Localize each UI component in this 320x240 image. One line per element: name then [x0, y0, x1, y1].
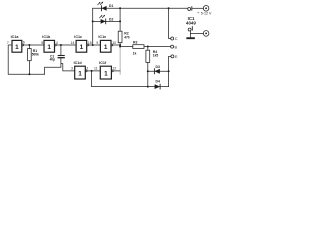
svg-text:1: 1: [47, 44, 51, 51]
gate IC1c: [74, 35, 88, 52]
wire LED right vertical down to R2: [119, 8, 121, 31]
wire IC1d out to IC1f in: [87, 70, 100, 72]
svg-text:D2: D2: [109, 17, 113, 21]
wire IC1e out: [113, 44, 120, 46]
LED D2: [100, 15, 114, 24]
svg-text:15: 15: [88, 41, 92, 45]
wire IC1a out to IC1b in: [24, 44, 44, 46]
wire node A loop: IC1a input left and down to rail: [8, 45, 44, 74]
wire down to bottom rail: [91, 71, 93, 87]
svg-text:IC1f: IC1f: [99, 61, 107, 65]
node R4 top junction: [147, 46, 149, 48]
resistor R4: [146, 50, 158, 63]
wire E branch: [169, 56, 171, 86]
resistor R3: [133, 41, 144, 56]
wire jog down to R3: [120, 46, 133, 48]
wire C1 bottom jog to rail: [45, 58, 61, 74]
wire to minus terminal: [190, 32, 203, 34]
svg-text:1: 1: [80, 44, 84, 51]
diode D3: [154, 65, 160, 74]
battery plus connector pin: [191, 7, 193, 11]
gate IC1b: [42, 35, 56, 52]
gate IC1e: [98, 35, 112, 52]
diode D4: [155, 79, 161, 89]
node D1 right junction: [119, 7, 121, 9]
wire LED left vertical: [92, 8, 94, 45]
svg-text:1: 1: [15, 44, 19, 51]
svg-text:1: 1: [78, 70, 82, 77]
battery plus terminal: [203, 6, 209, 12]
wire D3 row: [148, 70, 169, 72]
LED D1: [98, 2, 114, 11]
svg-text:470: 470: [124, 35, 130, 39]
svg-text:1: 1: [104, 70, 108, 77]
node D3 left junction: [147, 70, 149, 72]
gate IC1d: [74, 61, 88, 79]
svg-text:2: 2: [86, 67, 88, 71]
node D2 right junction: [119, 20, 121, 22]
svg-text:+: +: [197, 11, 200, 15]
svg-text:11: 11: [94, 67, 98, 71]
svg-text:3: 3: [71, 67, 73, 71]
wire C branch: [169, 8, 171, 38]
node C1 top junction: [60, 44, 62, 46]
svg-text:4: 4: [56, 41, 58, 45]
wire IC1f out stub: [113, 70, 120, 72]
svg-text:D3: D3: [156, 65, 160, 69]
svg-text:40p: 40p: [50, 58, 56, 62]
node IC1e out junction: [119, 44, 121, 46]
svg-text:D4: D4: [156, 79, 160, 83]
svg-text:10: 10: [112, 41, 116, 45]
wire D1 row: [93, 7, 120, 9]
terminal B: [171, 45, 174, 48]
wire R4 bottom left diode rail: [147, 62, 149, 86]
wire bottom rail: [92, 86, 148, 88]
node LED branch junction: [92, 44, 94, 46]
svg-text:R3: R3: [133, 41, 137, 45]
svg-text:500k: 500k: [32, 52, 39, 56]
svg-text:1: 1: [104, 44, 108, 51]
node IC1d out junction: [91, 70, 93, 72]
wire R3 to terminal B: [144, 46, 171, 48]
svg-text:6: 6: [23, 41, 25, 45]
battery minus terminal: [203, 31, 209, 37]
wire top rail: [120, 7, 188, 9]
wire to plus terminal: [192, 7, 203, 9]
svg-text:IC1d: IC1d: [74, 61, 83, 65]
svg-text:1k5: 1k5: [153, 54, 159, 58]
svg-text:IC1a: IC1a: [11, 35, 20, 39]
wire IC1b out to IC1c in: [56, 44, 76, 46]
battery minus connector socket: [188, 28, 191, 31]
gate IC1f: [99, 61, 113, 79]
wire D4 row: [148, 86, 169, 88]
terminal C: [171, 37, 174, 40]
node D4 left junction: [147, 86, 149, 88]
wire D2 row: [93, 20, 120, 22]
gate IC1a: [11, 35, 24, 52]
capacitor C1: [50, 54, 65, 61]
svg-text:E: E: [175, 55, 178, 59]
svg-text:12: 12: [113, 67, 117, 71]
svg-text:IC1c: IC1c: [74, 35, 82, 39]
battery plus connector socket: [188, 8, 191, 11]
svg-text:C: C: [175, 37, 178, 41]
node D2 left junction: [92, 20, 94, 22]
svg-text:1k: 1k: [133, 51, 137, 55]
node D3 right junction: [168, 70, 170, 72]
wire R1 top: [28, 45, 30, 49]
terminal E: [171, 55, 174, 58]
wire branch to IC1d input: [61, 64, 75, 71]
node C branch junction: [168, 7, 170, 9]
wire R1 bottom to rail: [28, 61, 30, 74]
svg-text:4049: 4049: [186, 21, 196, 26]
battery minus connector pin: [191, 27, 193, 31]
svg-text:B: B: [175, 45, 178, 49]
svg-text:5-12 V: 5-12 V: [201, 12, 212, 16]
node R1 rail junction: [28, 73, 30, 75]
wire C1 top: [60, 45, 62, 55]
svg-text:IC1b: IC1b: [42, 35, 51, 39]
svg-text:5: 5: [41, 41, 43, 45]
wire minus vertical to ground: [189, 31, 191, 37]
resistor R1: [28, 49, 39, 61]
svg-text:D1: D1: [109, 4, 113, 8]
wire IC1c out to IC1e in: [89, 44, 101, 46]
svg-text:14: 14: [71, 41, 75, 45]
node R1 top junction: [28, 44, 30, 46]
svg-text:IC1e: IC1e: [98, 35, 106, 39]
ground: [187, 37, 194, 39]
wire R4 top: [147, 47, 149, 51]
svg-text:7: 7: [7, 41, 9, 45]
wire R2 bottom: [119, 43, 121, 48]
svg-text:9: 9: [96, 41, 98, 45]
resistor R2: [118, 31, 130, 43]
